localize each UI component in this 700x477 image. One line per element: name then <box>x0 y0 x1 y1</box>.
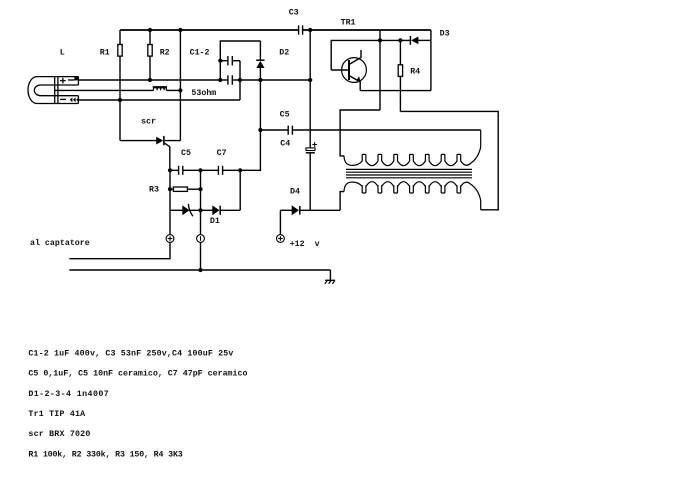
resistor R1 <box>118 30 122 100</box>
capacitor C4 <box>306 142 317 210</box>
svg-text:R3: R3 <box>149 185 159 194</box>
diode D1 <box>201 205 241 215</box>
wire C5hv row y130 <box>260 129 288 131</box>
terminal cathode out <box>197 235 205 243</box>
thyristor scr <box>156 136 170 147</box>
wire C1-2 box top <box>220 41 260 61</box>
wire emitter bottom y90.6 <box>360 90 431 92</box>
wire top bus left of C3 <box>120 29 298 31</box>
junction scr branch at bus <box>178 28 182 32</box>
junction R4 top at D3 wire <box>398 38 402 42</box>
capacitor C7 <box>218 166 240 175</box>
terminal +12V <box>277 210 285 242</box>
svg-text:C7: C7 <box>217 149 227 158</box>
transformer primary winding <box>344 130 481 166</box>
svg-text:C3: C3 <box>289 9 299 18</box>
svg-text:D1: D1 <box>210 217 220 226</box>
svg-text:R1 100k, R2 330k, R3 150, R4 3: R1 100k, R2 330k, R3 150, R4 3K3 <box>28 449 182 459</box>
inductor 53ohm <box>153 87 167 91</box>
wire TR1 base box left <box>331 40 380 70</box>
transformer primary hooks <box>362 154 461 161</box>
lamp L outline <box>28 77 78 104</box>
wire y80 C12 to D2 to x310 <box>240 79 310 81</box>
svg-text:scr: scr <box>141 118 156 127</box>
svg-text:D4: D4 <box>290 188 300 197</box>
svg-text:L: L <box>60 48 65 57</box>
wire D3 row middle <box>380 39 410 41</box>
diode D3 <box>410 36 431 45</box>
junction C4 branch at y80 <box>308 78 312 82</box>
diode trigger (diac) <box>170 204 201 217</box>
capacitor C2 (bottom of C1-2) <box>220 75 240 84</box>
svg-text:scr BRX 7020: scr BRX 7020 <box>28 430 90 439</box>
junction ground bus terminal2 <box>198 268 202 272</box>
capacitor C1 (top of C1-2) <box>220 56 240 65</box>
wire primary feed x380 <box>379 30 381 110</box>
resistor R4 <box>398 40 402 111</box>
transformer secondary right outline <box>400 111 498 209</box>
wire x310 y80 down to C4 <box>309 80 311 148</box>
junction R3 right <box>198 187 202 191</box>
svg-text:C4: C4 <box>280 140 290 149</box>
wire right vertical x431 <box>430 30 432 91</box>
lamp plus electrode <box>60 77 78 84</box>
svg-text:R4: R4 <box>410 68 420 77</box>
resistor R2 <box>148 30 152 80</box>
junction diac D1 node <box>198 208 202 212</box>
wire x260 down to C7 level <box>240 130 260 170</box>
junction primary feed at D3 wire <box>378 38 382 42</box>
svg-text:C5: C5 <box>280 111 290 120</box>
junction C1 left <box>218 59 222 63</box>
resistor R3 <box>170 187 201 191</box>
svg-text:D1-2-3-4 1n4007: D1-2-3-4 1n4007 <box>28 390 109 399</box>
transformer core <box>346 169 472 177</box>
diode D2 <box>256 41 264 80</box>
capacitor C5 (timing) <box>179 166 219 175</box>
junction R2 top at bus <box>148 28 152 32</box>
svg-text:D2: D2 <box>279 48 289 57</box>
svg-text:C5: C5 <box>181 149 191 158</box>
svg-text:C5 0,1uF, C5 10nF ceramico, C7: C5 0,1uF, C5 10nF ceramico, C7 47pF cera… <box>28 369 247 379</box>
wire vertical x180 bus to scr cathode <box>179 30 181 141</box>
junction C7 right node <box>238 168 242 172</box>
junction C5hv left corner <box>258 128 262 132</box>
wire C1-2 right vertical x240 <box>239 61 241 100</box>
wire scr gate vertical x170 <box>169 146 171 170</box>
transformer secondary left outline <box>340 192 344 211</box>
svg-text:53ohm: 53ohm <box>191 88 216 98</box>
svg-text:R1: R1 <box>100 48 110 57</box>
wire ground bus y270 <box>69 269 330 271</box>
junction R3 left <box>168 187 172 191</box>
junction C5 C7 middle node <box>198 168 202 172</box>
svg-text:TR1: TR1 <box>341 19 356 28</box>
wire terminal1 down-left <box>69 242 170 258</box>
wire terminal2 down <box>200 242 202 270</box>
wire scr cathode to x180 <box>164 140 181 142</box>
wire x310 bus to y80 <box>309 30 311 80</box>
wire C5C7 row <box>170 169 179 171</box>
junction C3 right at bus <box>308 28 312 32</box>
transformer secondary hooks <box>362 185 461 193</box>
junction 53ohm right <box>178 88 182 92</box>
ground symbol <box>325 270 335 284</box>
wire scr anode horizontal <box>120 140 157 142</box>
wire lamp plus y80 <box>78 79 220 81</box>
wire x170 vertical to terminal <box>169 170 171 234</box>
wire scr anode vertical x120 <box>119 100 121 141</box>
wire C1-2 left vertical lower <box>219 61 221 80</box>
terminal gate out <box>166 235 174 243</box>
capacitor C5 (hv) <box>288 126 481 135</box>
svg-text:D3: D3 <box>440 29 450 38</box>
wire lamp mid y90 <box>55 89 154 91</box>
junction C5 left node <box>168 168 172 172</box>
transformer secondary winding <box>344 182 481 210</box>
capacitor C3 <box>299 25 303 34</box>
wire 53ohm to x180 <box>166 89 180 91</box>
svg-text:C1-2: C1-2 <box>190 48 210 57</box>
transformer primary left outline <box>340 110 380 156</box>
junction C2 right <box>238 78 242 82</box>
junction C2 left <box>218 78 222 82</box>
svg-text:Tr1 TIP 41A: Tr1 TIP 41A <box>28 410 85 419</box>
transistor TR1 <box>331 50 366 91</box>
wire x200 vertical <box>200 170 202 234</box>
svg-text:C1-2 1uF 400v, C3 53nF 250v,C4: C1-2 1uF 400v, C3 53nF 250v,C4 100uF 25v <box>28 349 233 358</box>
wire D1 cathode up x240 <box>239 170 241 210</box>
junction D2 anode <box>258 78 262 82</box>
svg-text:al captatore: al captatore <box>30 238 90 248</box>
svg-text:+12 v: +12 v <box>290 240 320 249</box>
diode D4 <box>280 205 340 215</box>
lamp minus electrode <box>60 97 79 102</box>
wire D2 anode down x260 <box>259 80 261 130</box>
junction R1 bottom lamp minus wire <box>118 98 122 102</box>
wire top bus right of C3 <box>303 29 431 31</box>
svg-text:R2: R2 <box>160 48 170 57</box>
wire lamp minus y100 <box>78 99 240 101</box>
junction R2 bottom lamp plus wire <box>148 78 152 82</box>
